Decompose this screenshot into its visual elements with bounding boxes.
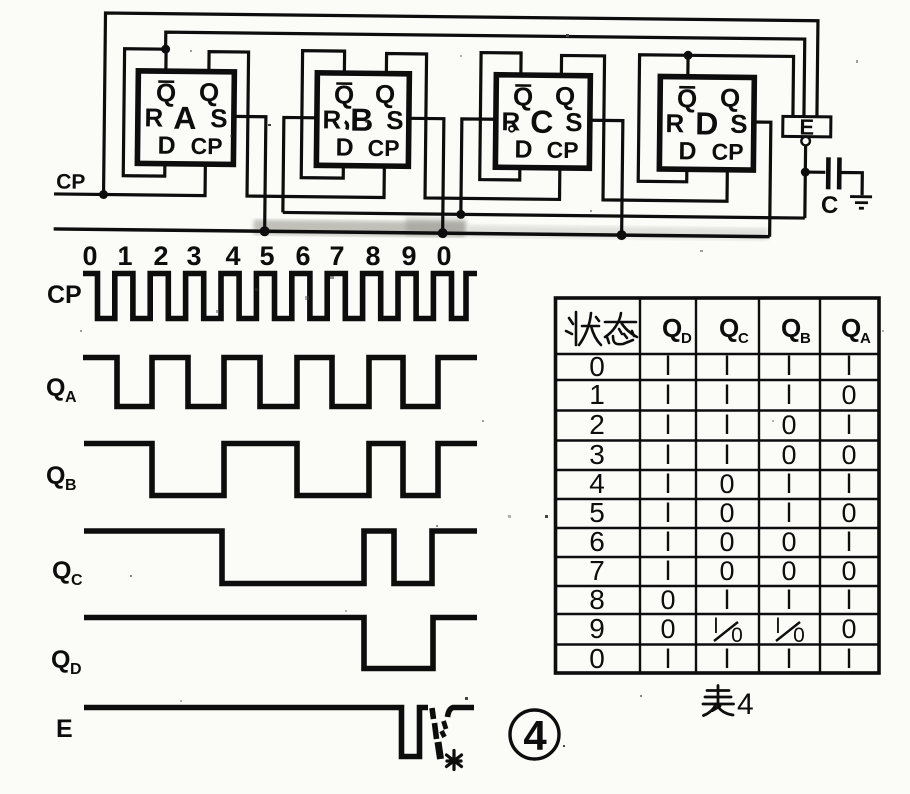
svg-text:0: 0 — [719, 556, 734, 586]
svg-text:A: A — [860, 330, 871, 347]
svg-text:CP: CP — [47, 281, 82, 309]
svg-text:l: l — [665, 498, 671, 528]
svg-text:C: C — [821, 192, 839, 219]
svg-text:l: l — [846, 527, 852, 557]
svg-text:l: l — [786, 498, 792, 528]
svg-text:5: 5 — [259, 241, 274, 271]
header hanzi zhuang-tai (state) — [566, 312, 637, 345]
svg-text:8: 8 — [365, 241, 380, 271]
svg-text:2: 2 — [589, 409, 605, 440]
svg-text:CP: CP — [546, 137, 578, 163]
svg-text:0: 0 — [841, 380, 856, 410]
svg-text:1: 1 — [589, 379, 605, 410]
svg-text:S: S — [210, 103, 228, 133]
svg-text:l: l — [714, 615, 719, 638]
svg-text:l: l — [786, 585, 792, 615]
svg-text:D: D — [514, 135, 532, 163]
svg-text:l: l — [724, 440, 730, 470]
junction node S-C on bus — [617, 230, 627, 240]
svg-text:Q: Q — [46, 374, 65, 402]
junction node R-C on reset rail — [456, 210, 465, 219]
svg-text:l: l — [786, 644, 792, 674]
svg-text:B: B — [800, 330, 811, 347]
svg-text:6: 6 — [295, 241, 310, 271]
svg-text:CP: CP — [711, 139, 743, 165]
svg-text:l: l — [786, 351, 792, 381]
svg-text:D: D — [695, 105, 718, 141]
svg-text:S: S — [386, 105, 404, 135]
svg-text:0: 0 — [436, 241, 451, 271]
svg-text:3: 3 — [589, 439, 605, 470]
svg-text:l: l — [724, 644, 730, 674]
svg-text:l: l — [724, 380, 730, 410]
svg-text:l: l — [786, 469, 792, 499]
waveform E tail segment — [448, 708, 475, 718]
waveform QD trace — [84, 618, 477, 669]
svg-text:C: C — [71, 572, 83, 589]
svg-text:Q: Q — [662, 313, 682, 343]
FF B: Q-B to CP-C wire — [385, 54, 561, 200]
svg-text:l: l — [665, 440, 671, 470]
waveform E trace — [84, 708, 428, 757]
wire: set bus bottom rail — [54, 229, 770, 237]
svg-text:l: l — [846, 585, 852, 615]
svg-text:l: l — [665, 644, 671, 674]
svg-text:0: 0 — [781, 440, 796, 470]
svg-text:l: l — [776, 615, 781, 638]
svg-text:0: 0 — [719, 498, 734, 528]
svg-text:B: B — [350, 102, 373, 138]
table data cells — [660, 351, 856, 674]
FF C: S-C wire to bus — [589, 120, 623, 235]
svg-text:A: A — [65, 389, 77, 406]
svg-text:E: E — [56, 715, 73, 743]
flip-flop C box — [495, 75, 590, 169]
FF B: S-B wire to bus — [408, 118, 444, 233]
svg-text:D: D — [678, 137, 696, 165]
E block inverter bubble — [801, 137, 810, 146]
svg-text:C: C — [530, 104, 553, 140]
svg-text:1: 1 — [117, 241, 132, 271]
svg-text:D: D — [681, 330, 692, 347]
svg-text:5: 5 — [589, 497, 605, 528]
svg-text:6: 6 — [589, 526, 605, 557]
svg-text:0: 0 — [841, 440, 856, 470]
svg-text:0: 0 — [589, 643, 605, 674]
svg-text:S: S — [565, 107, 583, 137]
waveform QB trace — [84, 444, 477, 496]
FF A: S-A wire to bus — [233, 116, 266, 231]
svg-text:8: 8 — [589, 584, 605, 615]
asterisk footnote mark — [447, 751, 462, 770]
svg-text:4: 4 — [523, 712, 547, 759]
smudge artifact near bus dot B — [406, 217, 466, 236]
svg-text:l: l — [665, 380, 671, 410]
svg-text:l: l — [724, 585, 730, 615]
FF C: Q-C to CP-D wire — [560, 55, 729, 201]
svg-text:B: B — [65, 477, 77, 494]
svg-text:0: 0 — [660, 585, 675, 615]
svg-text:l: l — [665, 469, 671, 499]
svg-text:4: 4 — [737, 688, 754, 721]
svg-text:Q: Q — [841, 313, 861, 343]
svg-text:R: R — [322, 104, 341, 134]
junction node CP line — [99, 190, 108, 199]
svg-text:9: 9 — [401, 241, 416, 271]
junction node Qbar-D / E line — [684, 51, 693, 60]
svg-text:l: l — [665, 410, 671, 440]
waveform CP trace — [83, 274, 477, 319]
svg-text:D: D — [157, 132, 175, 160]
svg-text:7: 7 — [329, 241, 344, 271]
waveform E uncertain edge dashes right — [442, 721, 447, 737]
svg-text:4: 4 — [225, 241, 240, 271]
svg-text:l: l — [665, 556, 671, 586]
svg-text:l: l — [846, 644, 852, 674]
FF B pin labels — [322, 78, 404, 162]
FF D pin labels — [665, 82, 748, 166]
flip-flop D box — [659, 77, 754, 171]
clock cycle numbers 0-9,0 — [82, 241, 451, 271]
FF A: Q-A to CP-B wire — [208, 52, 386, 198]
svg-text:R: R — [144, 102, 163, 132]
svg-text:0: 0 — [841, 556, 856, 586]
svg-text:9: 9 — [589, 613, 605, 644]
svg-text:A: A — [173, 100, 196, 136]
FF B: R-B wire to reset rail — [283, 117, 317, 212]
svg-text:R: R — [665, 108, 684, 138]
wire: capacitor C connection — [805, 172, 862, 195]
svg-text:l: l — [846, 410, 852, 440]
flip-flop B box — [316, 73, 409, 166]
svg-text:0: 0 — [82, 241, 97, 271]
svg-text:7: 7 — [589, 555, 605, 586]
svg-text:CP: CP — [367, 135, 399, 161]
svg-text:Q: Q — [52, 557, 71, 585]
smudge artifact along set bus — [254, 220, 466, 237]
svg-text:0: 0 — [841, 498, 856, 528]
svg-text:4: 4 — [589, 468, 605, 499]
FF B: D-loop wire Qbar-B to D-B — [301, 51, 344, 178]
svg-text:l: l — [786, 380, 792, 410]
FF D: D-loop wire Qbar-D to D-D — [638, 55, 688, 182]
svg-text:CP: CP — [190, 133, 222, 159]
svg-text:l: l — [665, 351, 671, 381]
svg-text:C: C — [738, 330, 749, 347]
circled figure number 4 — [510, 710, 559, 759]
junction node S-B on bus — [438, 228, 448, 238]
svg-text:0: 0 — [781, 410, 796, 440]
svg-text:S: S — [730, 109, 748, 139]
wire: Qbar-A to E, second top line — [165, 32, 805, 116]
svg-text:0: 0 — [781, 556, 796, 586]
smudge artifact right part of bus — [468, 225, 768, 240]
FF A: D-loop wire Qbar-A to D-A — [123, 49, 166, 176]
waveform E uncertain falling edge solid dashes — [432, 708, 437, 739]
svg-text:l: l — [846, 351, 852, 381]
caption hanzi biao (table) 4 — [703, 686, 734, 716]
svg-text:CP: CP — [56, 170, 85, 193]
svg-text:D: D — [70, 661, 82, 678]
svg-text:Q: Q — [781, 313, 801, 343]
waveform QA trace — [83, 358, 477, 407]
svg-text:l: l — [846, 469, 852, 499]
svg-text:Q: Q — [51, 646, 70, 674]
wire: Qbar-D to E, third top line — [687, 55, 793, 116]
svg-text:l: l — [724, 351, 730, 381]
FF C: R-C wire to reset rail — [461, 119, 496, 215]
FF C: D-loop wire Qbar-C to D-C — [480, 53, 521, 180]
svg-text:3: 3 — [186, 241, 201, 271]
FF A pin labels — [144, 76, 228, 160]
junction node capacitor tap — [801, 168, 810, 177]
svg-text:0: 0 — [660, 614, 675, 644]
svg-text:Q: Q — [719, 313, 739, 343]
svg-text:D: D — [335, 134, 353, 162]
ground symbol — [850, 197, 872, 209]
wire: CP input line — [54, 162, 205, 195]
capacitor C plates — [828, 157, 839, 189]
state column digits — [589, 351, 605, 674]
svg-text:0: 0 — [589, 351, 605, 382]
table grid — [556, 298, 880, 673]
FF D: S-D wire to bus end — [753, 122, 771, 237]
svg-text:l: l — [665, 527, 671, 557]
row 9 fraction slashes — [714, 622, 800, 641]
svg-text:2: 2 — [153, 241, 168, 271]
waveform QC trace — [84, 531, 477, 584]
junction node Qbar-A / E line — [161, 45, 170, 54]
svg-text:Q: Q — [46, 462, 65, 490]
svg-text:0: 0 — [781, 527, 796, 557]
wire: E output vertical to reset rail — [803, 146, 807, 218]
scan speckles — [80, 34, 884, 747]
svg-text:0: 0 — [841, 614, 856, 644]
wire: outer loop CP to E, top line — [104, 13, 818, 202]
wire: reset rail from E output — [283, 212, 805, 218]
svg-text:l: l — [724, 410, 730, 440]
svg-text:0: 0 — [719, 469, 734, 499]
junction node S-A on bus — [260, 226, 270, 236]
E block box — [783, 116, 831, 137]
svg-text:0: 0 — [719, 527, 734, 557]
FF C pin labels — [501, 80, 583, 164]
flip-flop A box — [137, 71, 234, 165]
